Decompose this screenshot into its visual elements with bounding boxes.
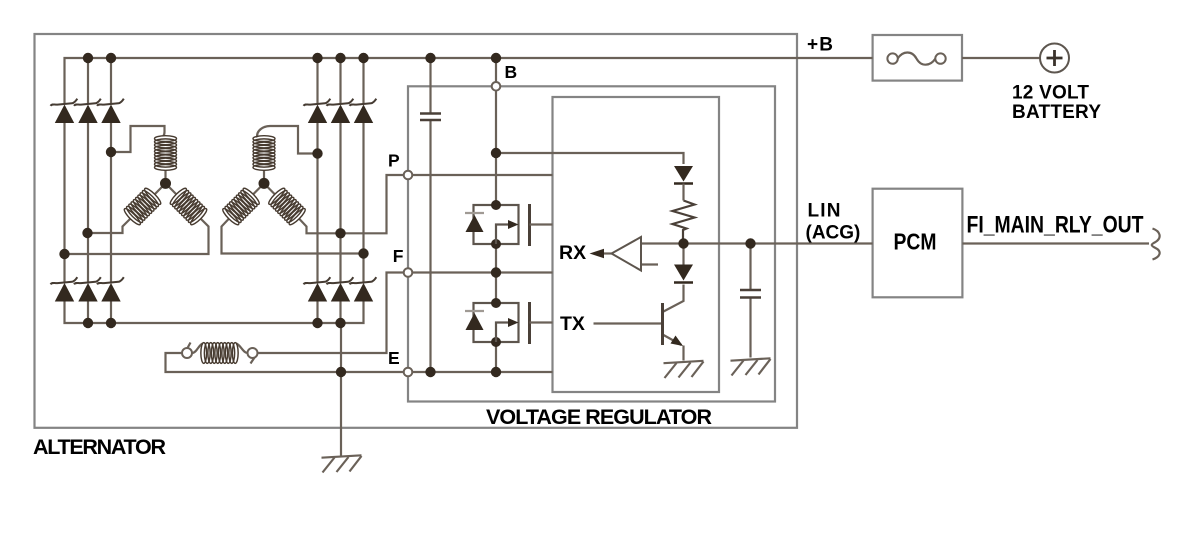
svg-text:RX: RX bbox=[559, 242, 586, 264]
svg-text:FI_MAIN_RLY_OUT: FI_MAIN_RLY_OUT bbox=[967, 211, 1144, 238]
svg-text:12 VOLT: 12 VOLT bbox=[1012, 82, 1089, 103]
svg-text:E: E bbox=[388, 348, 400, 368]
svg-text:TX: TX bbox=[560, 313, 585, 335]
svg-text:PCM: PCM bbox=[894, 229, 937, 255]
svg-text:LIN: LIN bbox=[808, 201, 841, 222]
svg-text:F: F bbox=[393, 246, 404, 266]
svg-text:VOLTAGE REGULATOR: VOLTAGE REGULATOR bbox=[486, 405, 712, 429]
svg-text:BATTERY: BATTERY bbox=[1012, 102, 1101, 123]
svg-text:P: P bbox=[388, 151, 400, 171]
svg-text:(ACG): (ACG) bbox=[806, 223, 861, 244]
svg-text:B: B bbox=[505, 62, 518, 82]
svg-text:+B: +B bbox=[807, 34, 833, 55]
svg-text:ALTERNATOR: ALTERNATOR bbox=[33, 435, 166, 459]
